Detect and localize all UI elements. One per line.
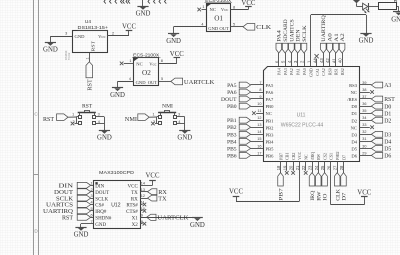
ground at O2 pin 4 [110,88,125,100]
no-connect at NMI pin 2 [151,122,155,126]
svg-text:D5: D5 [384,147,391,153]
net tag SDCARD at U11 top [282,19,289,66]
U4 pin 2 wire [107,32,129,36]
net tag PB6 at U11 left [227,153,263,160]
U12 pin names [95,185,138,228]
svg-text:27: 27 [333,165,338,170]
svg-text:1: 1 [152,112,154,116]
svg-text:PB4: PB4 [227,139,237,145]
net tag PA6 at U11 left [227,89,263,96]
wire [397,7,399,12]
svg-text:PB6: PB6 [266,154,275,159]
svg-text:IO: IO [323,193,329,200]
svg-text:PA0: PA0 [302,68,307,75]
svg-text:VCC: VCC [170,51,184,58]
svg-text:12: 12 [257,116,261,120]
U4 pin 3 wire [50,32,72,37]
svg-text:TX: TX [158,195,167,202]
svg-text:23: 23 [308,165,313,170]
svg-text:DOUT: DOUT [221,97,237,103]
svg-text:GND: GND [208,26,219,31]
svg-text:8: 8 [233,5,235,9]
svg-text:RTS#: RTS# [126,204,138,209]
RST button pins 3,4 wires [96,117,105,131]
svg-text:PA5: PA5 [266,83,274,88]
svg-text:RW: RW [316,190,322,200]
net tag PB2 at U11 left [227,124,263,131]
svg-text:CB2: CB2 [291,153,296,160]
svg-text:GND: GND [136,11,151,18]
ground right of resistor [391,12,400,24]
svg-text:14: 14 [257,130,261,134]
svg-text:NC: NC [136,62,142,67]
svg-text:UARTCS: UARTCS [289,19,295,42]
svg-text:20: 20 [289,165,294,170]
resistor R [379,0,398,10]
svg-text:6: 6 [90,213,92,217]
net tag CLK at O1 output [243,24,271,32]
svg-text:UARTCLK: UARTCLK [184,79,215,86]
svg-text:PB5: PB5 [227,146,237,152]
svg-text:CTS#: CTS# [126,210,138,215]
net tag RX at U12 pin 13 [140,189,167,196]
svg-text:VCC: VCC [241,0,255,7]
O1 pin 4 wire [174,23,207,34]
svg-text:PB7: PB7 [278,153,283,160]
svg-text:UARTCLK: UARTCLK [157,215,189,222]
svg-text:38: 38 [362,88,366,92]
wire from LED to GND [366,15,368,33]
RST button pin 2 stub [75,123,77,125]
U12 pin 7 GND wire [81,224,94,228]
svg-text:NMI: NMI [125,116,137,123]
svg-text:X1: X1 [132,217,139,222]
svg-text:RW: RW [316,153,321,159]
svg-text:RS1: RS1 [334,68,339,75]
svg-text:8: 8 [259,88,261,92]
svg-text:5: 5 [161,77,163,81]
svg-text:OUT: OUT [219,26,229,31]
svg-text:NC: NC [351,125,357,130]
net tag PB4 at U11 left [227,138,263,145]
svg-text:D5: D5 [351,147,357,152]
svg-text:MAX3100CPD: MAX3100CPD [99,170,135,176]
svg-text:VCC: VCC [128,185,139,190]
svg-text:40: 40 [338,58,343,63]
svg-text:CA1: CA1 [315,68,320,76]
ground at U4 pin 3 [43,36,58,54]
net tag DOUT at U11 left [221,96,263,103]
IC U12 MAX3100CPD body [94,170,141,229]
O2 pin 5 wire [158,77,170,81]
pushbutton RST [72,104,100,125]
U11 left pin names and numbers [257,81,274,159]
svg-text:X2: X2 [132,223,139,228]
svg-text:/IRQ: /IRQ [310,152,315,160]
svg-text:CS1: CS1 [329,153,334,160]
svg-text:CS#: CS# [95,204,104,209]
svg-text:1: 1 [72,112,74,116]
svg-text:RST: RST [384,97,395,103]
svg-text:16: 16 [257,144,261,148]
U11 top pin names and numbers [274,58,345,77]
svg-text:CA2: CA2 [321,68,326,76]
svg-text:CLK: CLK [256,24,271,31]
svg-text:5: 5 [233,23,235,27]
svg-text:D0: D0 [384,104,391,110]
net tag PB7 at U11 pin 18 [278,162,285,201]
net tag PA4 at U11 top [276,30,283,66]
ground below LED [359,34,374,45]
wire U11 pin 1 (to LED net) [0,0,1,1]
svg-text:DEN: DEN [296,29,302,42]
svg-text:D7: D7 [341,155,346,160]
net tag A2 at U11 top [339,33,346,66]
svg-text:3: 3 [178,112,180,116]
svg-text:D3: D3 [351,132,357,137]
svg-text:D2: D2 [351,118,357,123]
net tag SCLK at U12 left [56,195,93,202]
net tag UARTCS at U12 left [46,202,93,209]
no-connect at RST pin 2 [71,122,75,126]
U12 pin numbers [90,181,145,223]
svg-text:GND: GND [359,38,374,45]
net tag DOUT at U12 left [54,189,93,196]
power pin symbol (cut off) above LED [353,0,360,7]
svg-text:O2: O2 [142,69,151,77]
svg-text:RST: RST [62,215,73,222]
svg-text:13: 13 [257,123,261,127]
svg-text:SDCARD: SDCARD [283,19,289,42]
net tag A3 at U11 right [359,82,391,89]
svg-text:PB6: PB6 [227,153,237,159]
wire LED junction to U11 pin 1 [311,15,367,67]
svg-text:GND: GND [177,135,192,142]
svg-text:NC: NC [266,111,272,116]
pushbutton NMI [152,104,180,125]
svg-text:4: 4 [201,23,203,27]
svg-text:4: 4 [129,77,131,81]
net tag PB5 at U11 left [227,146,263,153]
net tag NMI [125,114,149,123]
svg-text:GND: GND [95,223,106,228]
svg-text:RST: RST [82,104,93,110]
svg-text:NMI: NMI [162,104,173,110]
svg-text:30: 30 [362,144,366,148]
svg-text:Vcc: Vcc [98,34,105,39]
svg-text:GND: GND [97,135,112,142]
small vertical text near U4 [64,50,71,60]
svg-text:2: 2 [112,32,114,36]
no-connect at U11 right NC pin [359,90,374,94]
svg-text:PHI2: PHI2 [335,151,340,159]
svg-text:U12: U12 [111,202,120,208]
svg-text:D1: D1 [384,111,391,117]
svg-text:VCC: VCC [122,23,136,30]
no-connect at U11 right NC pin [359,125,374,129]
svg-text:PA4: PA4 [277,68,282,75]
svg-text:4: 4 [90,201,92,205]
svg-text:1: 1 [202,5,204,9]
svg-text:IRQ#: IRQ# [95,210,107,215]
svg-text:SHDN#: SHDN# [95,217,112,222]
wire [368,6,378,8]
svg-text:17: 17 [257,151,261,155]
net tag PB0 at U11 left [227,103,263,110]
no-connect at U11 pin 22 [304,162,308,175]
svg-text:29: 29 [362,151,366,155]
ground at U12 pin 7 [74,228,89,239]
svg-text:PA6: PA6 [266,90,274,95]
svg-text:IRQ: IRQ [310,190,316,200]
svg-text:PA7: PA7 [266,97,274,102]
wire [357,6,363,8]
power VCC left of U11 bottom [229,189,243,197]
net tag RST below U4 [86,62,94,91]
svg-text:NC: NC [304,154,309,160]
U12 pin 14 wire to VCC [140,180,153,185]
power VCC right of U11 bottom [357,190,371,197]
svg-text:TO-92: TO-92 [67,52,71,60]
wire [149,116,157,118]
svg-text:D7: D7 [342,192,348,201]
svg-text:9: 9 [141,213,143,217]
net tag D7 at U11 bottom [341,162,348,201]
svg-text:PB2: PB2 [227,125,237,131]
net tag RST at U11 right [359,96,395,103]
svg-text:GND: GND [190,222,205,229]
svg-text:RST: RST [43,116,54,123]
no-connect at O1 pin 1 [197,8,201,12]
power VCC at U4 pin 2 [122,23,136,35]
U11 right pin names and numbers [347,81,366,159]
net tag D5 at U11 right [359,146,391,153]
svg-text:PB1: PB1 [266,118,275,123]
svg-text:11: 11 [258,109,262,113]
ground at U12 pin 9 net [190,218,205,229]
svg-text:36: 36 [362,102,366,106]
wire [68,116,76,118]
net tag D4 at U11 right [359,138,391,145]
net tag UARTIRQ at U12 left [43,208,93,215]
net tag D3 at U11 right [359,131,391,138]
net tag PA5 at U11 left [227,82,263,89]
svg-text:15: 15 [257,137,261,141]
svg-text:D6: D6 [384,154,391,160]
oscillator O2 ECS-2100X body [132,53,161,86]
LED D1 [363,3,370,13]
svg-text:CLK: CLK [335,189,341,201]
svg-text:ECS-2100X: ECS-2100X [133,53,159,58]
NMI button pins 3,4 wires [176,117,184,131]
svg-text:PB3: PB3 [266,132,275,137]
svg-text:W65C22 PLCC-44: W65C22 PLCC-44 [281,122,324,128]
svg-text:D2: D2 [384,118,391,124]
svg-text:GND: GND [391,16,400,23]
svg-text:GND: GND [75,34,86,39]
svg-text:UARTIRQ: UARTIRQ [321,15,327,42]
svg-text:RST: RST [91,41,96,52]
svg-text:GND: GND [43,47,58,54]
O2 pin 1 wire [124,59,134,64]
svg-text:33: 33 [362,123,366,127]
svg-text:PB7: PB7 [279,188,285,201]
svg-text:D4: D4 [384,140,391,146]
svg-text:10: 10 [257,102,261,106]
svg-text:32: 32 [362,130,366,134]
no-connect at U11 pin 19 [285,162,289,175]
no-connect at U12 pin 10 [140,209,146,213]
svg-text:O1: O1 [214,15,223,23]
net tag IO at U11 bottom [322,162,329,201]
net tag RST at U12 left [62,214,93,221]
svg-text:1: 1 [90,181,92,185]
svg-text:NC: NC [210,7,216,12]
svg-text:GND: GND [110,92,125,99]
svg-text:VCC: VCC [357,190,371,197]
U11 bottom pin names and numbers [276,151,346,170]
O1 pin 8 wire [230,5,248,9]
svg-text:3: 3 [90,194,92,198]
O2 pin 4 wire [118,77,134,87]
no-connect at U11 pin 11 [252,111,263,115]
power VCC at O2 pin 8 [170,51,184,63]
net tag DEN at U11 top [295,29,302,66]
svg-text:A2: A2 [340,33,346,42]
oscillator O1 ECS-2100X body [205,0,233,32]
no-connect at U11 pin 20 [291,162,295,175]
net tag CLK at U11 bottom [334,162,341,201]
svg-text:PB4: PB4 [266,139,275,144]
svg-text:RS0: RS0 [327,68,332,75]
wire U11 pin 21 to VCC [236,162,300,202]
net tag D0 at U11 right [359,103,391,110]
svg-text:DIN: DIN [95,185,104,190]
svg-text:/RES: /RES [347,97,357,102]
svg-text:PA4: PA4 [277,30,283,42]
net tag RW at U11 bottom [316,162,323,201]
svg-text:D4: D4 [351,139,357,144]
svg-text:D1: D1 [351,111,357,116]
U12 pin 9 wire with UARTCLK tag to ground [140,214,197,222]
svg-text:SCLK: SCLK [302,25,308,42]
svg-text:PB3: PB3 [227,132,237,138]
net tag SCLK at U11 top [301,25,308,66]
svg-text:GND: GND [309,68,314,77]
svg-text:DOUT: DOUT [95,191,109,196]
svg-text:U11: U11 [297,113,306,119]
ground below RST button [97,131,112,142]
power VCC at U12 pin 14 [146,173,160,181]
svg-text:GND: GND [74,232,89,239]
net tag UARTIRQ at U11 top [321,15,328,66]
svg-text:TX: TX [131,191,138,196]
net tag IRQ at U11 bottom [309,162,316,201]
svg-text:OUT: OUT [148,80,158,85]
svg-text:12: 12 [141,194,145,198]
svg-text:RST: RST [87,79,94,91]
svg-text:PA5: PA5 [227,83,237,89]
IC U4 DS1813-15+ body [73,19,109,52]
net tag PB3 at U11 left [227,131,263,138]
svg-text:RS2: RS2 [340,68,345,75]
svg-text:PB2: PB2 [266,125,275,130]
no-connect at U12 pin 11 [140,203,146,207]
svg-text:1: 1 [85,57,89,59]
wire [142,0,144,6]
svg-text:PB1: PB1 [227,118,237,124]
IC U11 W65C22 body [264,67,360,162]
svg-text:GND: GND [166,38,181,45]
svg-text:8: 8 [161,59,163,63]
net tag UARTCS at U11 top [289,19,296,66]
no-connect at O2 pin 1 [120,62,124,66]
svg-text:VCC: VCC [297,151,302,160]
svg-text:PA6: PA6 [227,90,237,96]
net tag PB1 at U11 left [227,117,263,124]
svg-text:VCC: VCC [229,189,243,196]
svg-text:GND: GND [136,80,147,85]
svg-text:VCC: VCC [146,173,160,180]
ground at O1 pin 4 [166,34,181,46]
O1 pin 5 wire [230,23,243,27]
svg-text:PA2: PA2 [289,68,294,75]
svg-text:R: R [394,0,398,4]
net tag A1 at U11 top [333,33,340,66]
cut-off bus chevrons at top edge [104,0,166,4]
svg-text:PA1: PA1 [296,68,301,75]
U4 pin 1 wire [85,53,89,62]
net tag D1 at U11 right [359,110,391,117]
net tag D6 at U11 right [359,153,391,160]
svg-text:35: 35 [362,109,366,113]
svg-text:A1: A1 [334,33,340,42]
net tag TX at U12 pin 12 [140,195,167,202]
svg-text:3: 3 [65,32,67,36]
svg-text:RX: RX [131,197,138,202]
svg-text:PB5: PB5 [266,147,275,152]
ground below NMI button [177,131,192,142]
svg-text:SCLK: SCLK [95,197,108,202]
net tag A0 at U11 top [327,33,334,66]
ground [136,7,151,18]
svg-text:Vcc: Vcc [221,7,228,12]
svg-text:Vcc: Vcc [149,62,156,67]
net tag UARTCLK at O2 output [171,78,215,86]
svg-text:PB0: PB0 [266,104,275,109]
no-connect at U12 pin 8 [140,222,146,226]
wire U11 pin 26 to VCC [331,162,365,205]
svg-text:NC: NC [351,90,357,95]
net tag RST at left edge [43,114,68,123]
O2 pin 8 wire [158,59,176,63]
svg-text:D0: D0 [351,104,357,109]
svg-text:14: 14 [141,181,145,185]
svg-text:D3: D3 [384,133,391,139]
O1 pin 1 wire [202,5,207,10]
svg-text:PB0: PB0 [227,104,237,110]
svg-text:31: 31 [362,137,366,141]
NMI button pin 2 stub [155,123,157,125]
net tag DIN at U12 left [59,182,94,189]
power VCC at O1 pin 8 [241,0,255,10]
svg-text:RS3: RS3 [349,83,358,88]
svg-text:CB1: CB1 [285,153,290,160]
svg-text:U4: U4 [85,19,91,25]
svg-text:3: 3 [98,112,100,116]
svg-text:A3: A3 [384,83,391,89]
no-connect at U11 pin 44 [315,54,319,66]
